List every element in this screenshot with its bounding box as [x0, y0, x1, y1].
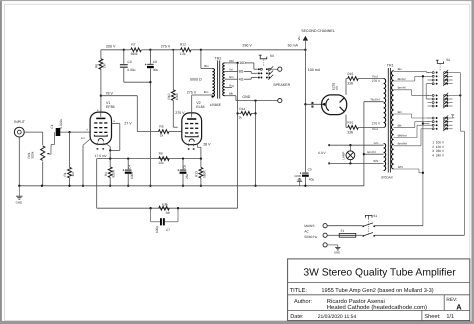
- svg-text:100u: 100u: [130, 172, 134, 179]
- resistor R8 6.8k feedback: [159, 206, 170, 210]
- svg-text:R15: R15: [347, 72, 353, 76]
- terminal heater bottom stub: [328, 162, 330, 164]
- wire secondary tap Wht 16 ohm: [225, 62, 238, 64]
- node left bus tap2: [422, 122, 424, 124]
- wire S3 dashed link: [263, 60, 265, 67]
- transformer TR1 heater winding: [384, 144, 386, 171]
- svg-text:2x7: 2x7: [81, 137, 86, 140]
- svg-text:C5: C5: [308, 168, 312, 172]
- svg-text:S1: S1: [373, 214, 377, 218]
- node screen bypass: [127, 157, 129, 159]
- wire V1 screen to bypass node: [110, 124, 120, 151]
- svg-text:R5: R5: [159, 125, 163, 129]
- wire 8 ohm to selector: [244, 71, 258, 73]
- svg-text:2 120 V: 2 120 V: [432, 145, 445, 149]
- svg-text:Blu: Blu: [398, 67, 402, 71]
- wire secondary tap Blk to GND line: [225, 96, 278, 101]
- node pot ground: [41, 185, 43, 187]
- node GND line to ground: [254, 99, 256, 101]
- wire live to switch: [327, 225, 362, 227]
- svg-text:1955 Tube Amp Gen2 (based on M: 1955 Tube Amp Gen2 (based on Mullard 3-3…: [321, 287, 433, 294]
- svg-text:Blk: Blk: [229, 92, 233, 96]
- node C8 ground: [149, 185, 151, 187]
- node cathode R4: [109, 157, 111, 159]
- resistor R9 22k screen link: [159, 157, 170, 161]
- svg-text:Brn: Brn: [204, 90, 209, 94]
- resistor R12 2.2k: [181, 48, 201, 52]
- svg-text:820R: 820R: [112, 169, 116, 177]
- wire right selector bus: [459, 73, 461, 132]
- connector J1 input jack: [14, 127, 24, 137]
- capacitor C1 0.022u: [56, 128, 61, 136]
- terminal speaker gnd: [278, 99, 282, 103]
- svg-text:1M: 1M: [102, 63, 106, 68]
- resistor R5 1k grid stopper: [155, 130, 182, 134]
- capacitor C3 0.33u decoupling: [120, 50, 150, 82]
- node V3 cathode junction: [304, 103, 306, 105]
- terminal heater top stub: [328, 144, 330, 146]
- wire tap BlkRed: [394, 125, 430, 137]
- node 16 ohm takeoff: [236, 62, 238, 64]
- svg-text:3 230 V: 3 230 V: [432, 149, 445, 153]
- svg-text:INPUT: INPUT: [14, 120, 26, 124]
- svg-text:R16: R16: [347, 121, 353, 125]
- svg-text:1k: 1k: [238, 116, 242, 120]
- wire feedback riser from cathode: [96, 159, 98, 209]
- svg-text:4Ω: 4Ω: [239, 78, 244, 82]
- wire secondary tap Grn 4 ohm: [225, 78, 238, 80]
- wire S1 dashed link: [368, 219, 370, 234]
- svg-text:Heated Cathode (heatedcathode.: Heated Cathode (heatedcathode.com): [327, 304, 427, 311]
- wire input tip to volume pot: [24, 131, 43, 133]
- wire tap BluYel: [394, 76, 430, 81]
- svg-text:R12: R12: [180, 43, 186, 47]
- transformer TR2 primary winding: [212, 69, 214, 97]
- node C8 bottom: [149, 81, 151, 83]
- svg-text:200 V: 200 V: [106, 45, 116, 49]
- svg-text:16Ω: 16Ω: [239, 61, 246, 65]
- switch S3 selector lever: [259, 55, 267, 59]
- svg-text:SPEAKER: SPEAKER: [273, 83, 290, 87]
- wire fuse to switch: [356, 234, 362, 236]
- node R8 left: [149, 207, 151, 209]
- svg-text:S3: S3: [270, 54, 274, 58]
- wire secondary tap Org stub: [225, 87, 232, 89]
- svg-text:BlkRed: BlkRed: [398, 133, 407, 137]
- wire bank3 row1 loop: [451, 115, 454, 118]
- svg-text:Blk: Blk: [398, 124, 402, 128]
- capacitor C7 100p feedback: [151, 208, 178, 225]
- lamp DS1 pilot: [346, 144, 355, 165]
- svg-text:1 100 V: 1 100 V: [432, 140, 445, 144]
- svg-text:Grn: Grn: [229, 75, 234, 79]
- wire HT center tap RedYel: [364, 102, 384, 186]
- node shield ground: [82, 185, 84, 187]
- svg-text:275 V: 275 V: [187, 90, 197, 94]
- node C6 ground: [182, 185, 184, 187]
- node B+ second channel: [304, 49, 306, 51]
- terminal mains neutral: [323, 233, 327, 237]
- transformer TR1 primary winding: [392, 71, 394, 169]
- resistor R4 820R cathode: [108, 159, 112, 186]
- node heater center tap: [363, 153, 365, 155]
- wire V3 anode top: [345, 79, 347, 95]
- svg-text:100 mA: 100 mA: [308, 68, 321, 72]
- svg-text:V3: V3: [335, 86, 339, 90]
- svg-text:33R: 33R: [347, 82, 354, 86]
- switch S2 bank3 row 2: [428, 121, 433, 123]
- svg-text:27 V: 27 V: [124, 122, 132, 126]
- svg-text:Wht: Wht: [229, 59, 234, 63]
- svg-text:100p: 100p: [155, 226, 159, 233]
- switch S1 pole neutral: [362, 233, 375, 237]
- node R8 right: [177, 207, 179, 209]
- wire GrnYel center tap: [364, 153, 384, 155]
- node R4 ground: [109, 185, 111, 187]
- wire tap Brn: [394, 114, 430, 118]
- wire 200V rail: [101, 49, 124, 51]
- terminal mains earth: [323, 243, 327, 247]
- svg-text:GrnYel: GrnYel: [367, 150, 376, 154]
- wire tap BrnYel: [394, 90, 430, 96]
- wire B+ riser to C5: [304, 50, 306, 172]
- transformer TR2 secondary winding: [223, 63, 225, 96]
- node screen cathode tie: [109, 149, 111, 151]
- wire TR2 primary top feed: [201, 50, 213, 69]
- svg-text:6.3 V: 6.3 V: [318, 151, 326, 155]
- capacitor C4 100u screen bypass: [123, 159, 132, 186]
- wire left bus to bank rows: [423, 84, 429, 124]
- svg-text:50 mA: 50 mA: [288, 43, 299, 47]
- capacitor C6 25u cathode bypass: [177, 159, 186, 186]
- svg-text:Red: Red: [372, 74, 378, 78]
- svg-text:33R: 33R: [347, 130, 354, 134]
- svg-text:F1: F1: [341, 229, 345, 233]
- wire 16 ohm to selector: [246, 63, 258, 69]
- svg-text:Wht: Wht: [398, 165, 403, 169]
- fuse F1: [327, 233, 356, 237]
- svg-text:RedYel: RedYel: [371, 98, 381, 102]
- wire V1 shield pins to ground: [83, 139, 91, 186]
- switch S2 bank2 row 3: [428, 102, 433, 104]
- resistor R13 560R cathode bias: [199, 159, 203, 186]
- wire anode node to V1: [100, 96, 102, 113]
- svg-text:0.33u: 0.33u: [127, 68, 135, 72]
- svg-text:Wht: Wht: [373, 159, 378, 163]
- svg-text:S2: S2: [446, 58, 450, 62]
- wire V1 cathode lead: [106, 144, 110, 159]
- svg-text:100k: 100k: [175, 93, 179, 100]
- svg-text:370DAX: 370DAX: [381, 175, 394, 179]
- terminal V1 heater stubs: [97, 143, 105, 150]
- wire input sleeve to ground rail: [18, 137, 20, 186]
- node left bus tap1: [422, 75, 424, 77]
- svg-text:LAMP: LAMP: [341, 152, 345, 160]
- svg-text:2.2k: 2.2k: [180, 52, 186, 56]
- svg-text:50/60 Hz: 50/60 Hz: [304, 235, 317, 239]
- wire S2 dashed link: [439, 64, 441, 71]
- svg-text:290 V: 290 V: [242, 43, 252, 47]
- node input ground: [18, 185, 20, 187]
- node 290V rail TR2 tap: [200, 49, 202, 51]
- terminal V2 heater stubs: [188, 143, 195, 150]
- transformer TR1 core: [388, 68, 390, 173]
- svg-text:8Ω: 8Ω: [239, 70, 244, 74]
- svg-text:MAINS: MAINS: [304, 224, 314, 228]
- switch S2 bank1 row 4: [428, 83, 433, 85]
- node R1 ground: [68, 185, 70, 187]
- node C4 ground: [127, 185, 129, 187]
- node grid V1: [68, 131, 70, 133]
- resistor R1 1M grid leak: [68, 132, 72, 186]
- svg-text:TITLE:: TITLE:: [290, 288, 308, 294]
- svg-text:6.8k: 6.8k: [162, 202, 168, 206]
- svg-text:17.5 mV: 17.5 mV: [95, 154, 108, 158]
- svg-text:1k: 1k: [160, 134, 164, 138]
- svg-text:28 V: 28 V: [203, 142, 211, 146]
- svg-text:C1: C1: [50, 124, 54, 128]
- switch S3 contact row 8 ohm: [258, 71, 273, 76]
- svg-text:275 V: 275 V: [161, 45, 171, 49]
- node gnd riser rail: [254, 185, 256, 187]
- wire earth stub: [327, 244, 338, 246]
- terminal mains live: [323, 224, 327, 228]
- svg-text:390k: 390k: [131, 52, 138, 56]
- wire V3 anode bottom: [345, 115, 347, 128]
- potentiometer RV1 500k: [41, 132, 55, 186]
- wire 275V rail: [150, 49, 180, 51]
- svg-text:Vb+: Vb+: [297, 35, 301, 40]
- tube V2 EL84 pentode: [182, 113, 202, 145]
- svg-text:A: A: [456, 302, 462, 311]
- terminal V3 heater pins: [311, 102, 313, 108]
- wire tap Blu: [394, 71, 430, 72]
- transformer TR1 HT winding: [384, 79, 386, 128]
- svg-text:0.022u: 0.022u: [59, 119, 63, 129]
- svg-text:BluYel: BluYel: [398, 77, 406, 81]
- node 78V anode: [100, 95, 102, 97]
- svg-text:BrnYel: BrnYel: [398, 86, 407, 90]
- svg-text:EL84: EL84: [196, 105, 204, 109]
- ground symbol mains earth: [335, 245, 340, 250]
- node left bus tap3: [422, 172, 424, 174]
- resistor R16 33R: [346, 126, 384, 130]
- resistor R15 33R: [346, 77, 384, 81]
- svg-text:Date:: Date:: [290, 314, 304, 320]
- svg-text:560R: 560R: [202, 170, 206, 178]
- ground symbol left: [16, 186, 22, 199]
- switch S2 bank1 row 1: [428, 72, 433, 74]
- wire gnd line riser: [255, 101, 257, 186]
- svg-text:125B5E: 125B5E: [210, 103, 221, 107]
- svg-text:C7: C7: [166, 228, 170, 232]
- svg-text:78 V: 78 V: [106, 92, 114, 96]
- svg-text:Grn: Grn: [374, 141, 379, 145]
- switch S1 pole live: [362, 223, 375, 227]
- wire 16ohm feedback drop: [237, 63, 239, 208]
- wire feedback line: [97, 207, 238, 209]
- resistor R7 390k supply dropper: [124, 48, 151, 52]
- switch S2 bank2 row 2: [428, 98, 433, 100]
- wire tap BrnWht: [394, 129, 430, 146]
- svg-text:Brn: Brn: [398, 110, 403, 114]
- svg-text:40u: 40u: [153, 68, 159, 72]
- resistor R14 1k feedback divider: [236, 112, 256, 116]
- transformer TR2 core: [218, 61, 220, 99]
- svg-text:R1: R1: [63, 172, 67, 176]
- wire bank1 row1 to right bus: [453, 72, 461, 74]
- switch S1 actuator: [365, 215, 372, 218]
- wire V3 cathode to B+: [305, 103, 321, 105]
- switch S2 bank1 row 2: [428, 75, 433, 77]
- svg-text:270 V: 270 V: [372, 121, 381, 125]
- svg-text:21/03/2020 11:54: 21/03/2020 11:54: [318, 314, 357, 320]
- svg-text:40u: 40u: [309, 178, 315, 182]
- svg-text:R8: R8: [166, 211, 170, 215]
- switch S2 bank2 row 1: [428, 94, 433, 96]
- wire V2 cathode lead: [197, 144, 201, 159]
- node bank2 bus: [459, 94, 461, 96]
- switch S3 contact row 4 ohm: [258, 75, 273, 80]
- wire V2 anode to output transformer: [192, 95, 213, 113]
- resistor R10 100k screen feed: [171, 50, 177, 127]
- svg-text:Yel: Yel: [229, 67, 233, 71]
- node TR2 primary bottom: [211, 95, 213, 97]
- capacitor C8 40u filter: [145, 50, 154, 82]
- node 275V C8: [149, 49, 151, 51]
- svg-text:SECOND CHANNEL: SECOND CHANNEL: [301, 29, 335, 33]
- svg-text:R10: R10: [167, 93, 171, 99]
- wire heater bottom: [330, 162, 384, 164]
- svg-text:EF86: EF86: [106, 105, 115, 109]
- wire cathode node line: [97, 158, 201, 160]
- svg-text:22k: 22k: [159, 161, 165, 165]
- node 200V junction: [123, 49, 125, 51]
- svg-text:R7: R7: [131, 43, 135, 47]
- svg-text:Ricardo Pastor Asensi: Ricardo Pastor Asensi: [327, 298, 385, 305]
- switch S3 contact row 16 ohm: [258, 66, 278, 71]
- svg-text:TR1: TR1: [387, 63, 394, 67]
- switch S2 bank3 row 1: [428, 117, 433, 119]
- switch S2 bank2 row 4: [428, 105, 433, 107]
- wire V1 anode to V2 grid: [101, 96, 155, 132]
- svg-text:1/1: 1/1: [446, 313, 454, 320]
- svg-text:Author:: Author:: [294, 298, 312, 305]
- switch S2 selector lever: [436, 60, 444, 63]
- wire C1 to grid node: [60, 131, 90, 133]
- svg-text:GND: GND: [334, 251, 340, 255]
- wire TR1 bottom tap to mains bus: [394, 169, 423, 173]
- svg-text:5000 Ω: 5000 Ω: [190, 78, 202, 82]
- svg-text:C3: C3: [127, 60, 131, 64]
- wire 4 ohm to selector: [244, 78, 258, 80]
- wire live to left bus: [374, 225, 423, 227]
- tube V3 EZ81 rectifier: [322, 95, 347, 115]
- svg-text:Sheet:: Sheet:: [424, 313, 441, 320]
- wire right bus to neutral riser: [460, 131, 464, 235]
- switch S2 bank3 row 3: [428, 124, 433, 126]
- svg-text:C6: C6: [182, 165, 186, 169]
- svg-text:GND: GND: [242, 95, 250, 99]
- svg-text:C4: C4: [128, 165, 132, 169]
- svg-text:1M: 1M: [71, 172, 75, 177]
- svg-text:R6: R6: [95, 64, 99, 68]
- title block frame: [288, 259, 470, 321]
- svg-text:500k: 500k: [31, 151, 35, 158]
- node C6 top: [182, 157, 184, 159]
- ground symbol mid rail: [297, 179, 302, 186]
- wire bank2 row1 to right bus: [453, 94, 461, 96]
- resistor R6 1M anode load: [99, 50, 103, 96]
- svg-text:GND: GND: [16, 201, 22, 205]
- svg-text:4 240 V: 4 240 V: [432, 154, 445, 158]
- switch S2 bank3 row 4: [428, 128, 433, 130]
- svg-text:R13: R13: [194, 171, 198, 177]
- arrow second channel feed: [303, 36, 308, 50]
- terminal speaker plus: [278, 67, 282, 71]
- svg-text:C8: C8: [153, 60, 157, 64]
- svg-text:R4: R4: [104, 172, 108, 176]
- svg-text:Org: Org: [229, 84, 234, 88]
- node R10 tap: [172, 49, 174, 51]
- svg-text:Red: Red: [372, 127, 378, 131]
- svg-text:BrnWht: BrnWht: [398, 142, 408, 146]
- wire C8 to ground rail: [149, 82, 151, 186]
- svg-text:270 V: 270 V: [372, 79, 381, 83]
- capacitor C5 40u reservoir: [300, 172, 309, 186]
- wire main ground rail: [19, 185, 364, 187]
- svg-text:275 V: 275 V: [175, 111, 185, 115]
- wire left selector bus: [422, 76, 424, 225]
- svg-text:GND: GND: [294, 174, 300, 178]
- svg-text:TR2: TR2: [215, 56, 222, 60]
- wire 290V rail: [201, 49, 306, 51]
- wire neutral to right riser: [374, 234, 464, 236]
- svg-text:Blu: Blu: [204, 64, 209, 68]
- svg-text:AC: AC: [304, 229, 309, 233]
- node C5 ground: [304, 185, 306, 187]
- tube V1 EF86 pentode: [90, 112, 111, 144]
- svg-text:R9: R9: [159, 152, 163, 156]
- svg-text:3W Stereo Quality Tube Amplifi: 3W Stereo Quality Tube Amplifier: [303, 267, 456, 278]
- node R13 top: [200, 157, 202, 159]
- wire secondary tap Yel 8 ohm: [225, 70, 238, 72]
- svg-text:R14: R14: [239, 107, 245, 111]
- node R13 ground: [200, 185, 202, 187]
- switch S2 bank1 row 3: [428, 79, 433, 81]
- wire tap Blk: [394, 122, 430, 128]
- wire heater top: [330, 144, 384, 146]
- svg-text:25u: 25u: [185, 173, 189, 179]
- wire V1 grid lead: [89, 131, 91, 133]
